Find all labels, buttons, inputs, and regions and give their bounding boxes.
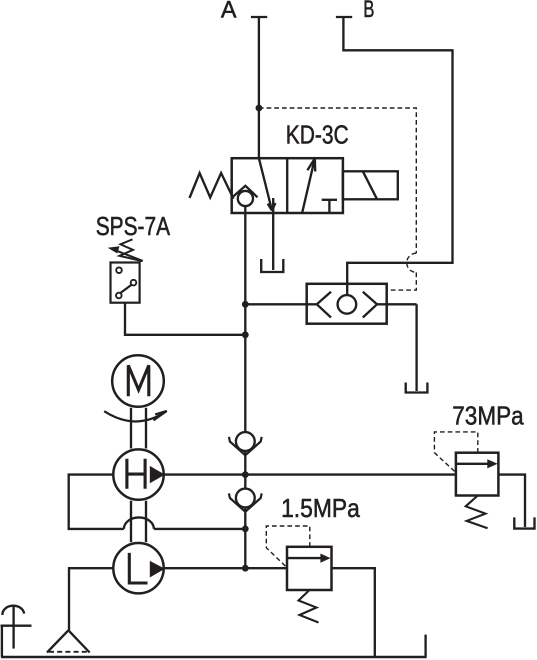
svg-text:A: A xyxy=(221,0,237,23)
svg-text:1.5MPa: 1.5MPa xyxy=(281,493,360,523)
svg-text:SPS-7A: SPS-7A xyxy=(96,211,171,241)
svg-text:73MPa: 73MPa xyxy=(452,400,524,430)
svg-text:KD-3C: KD-3C xyxy=(286,120,349,150)
svg-text:B: B xyxy=(363,0,374,23)
